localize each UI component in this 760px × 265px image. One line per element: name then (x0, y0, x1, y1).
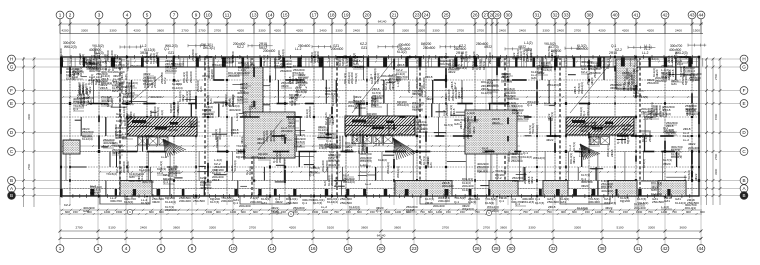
svg-text:250x600: 250x600 (189, 71, 193, 83)
svg-text:28: 28 (493, 246, 499, 251)
svg-text:3Φ20: 3Φ20 (281, 84, 289, 88)
svg-text:1200: 1200 (104, 210, 111, 214)
svg-text:2Φ18: 2Φ18 (610, 149, 614, 157)
svg-text:300x700: 300x700 (381, 134, 385, 146)
svg-text:8@200: 8@200 (551, 49, 562, 53)
svg-text:250x600: 250x600 (593, 66, 597, 78)
svg-text:GZ1: GZ1 (124, 74, 128, 80)
svg-text:L-1(2): L-1(2) (512, 56, 520, 60)
svg-text:32: 32 (550, 246, 556, 251)
svg-text:1: 1 (59, 12, 62, 17)
svg-text:2700: 2700 (574, 29, 581, 33)
svg-text:YKL5(2): YKL5(2) (412, 108, 423, 112)
svg-text:64140: 64140 (377, 234, 386, 238)
text labels over stair hatches (132, 120, 616, 133)
svg-text:400x900: 400x900 (601, 189, 613, 193)
svg-text:3Φ20: 3Φ20 (580, 129, 588, 133)
svg-text:LL-2: LL-2 (143, 59, 149, 63)
text clusters below building (64, 196, 699, 213)
svg-text:150: 150 (623, 210, 628, 214)
svg-text:38: 38 (586, 12, 592, 17)
svg-text:KL7(3): KL7(3) (572, 142, 576, 151)
svg-text:600: 600 (253, 210, 258, 214)
svg-text:KL7(3): KL7(3) (535, 201, 544, 205)
svg-text:300x700: 300x700 (129, 179, 141, 183)
svg-text:150: 150 (585, 210, 590, 214)
svg-text:3300: 3300 (81, 29, 88, 33)
svg-text:3300: 3300 (543, 29, 550, 33)
svg-text:64140: 64140 (378, 20, 387, 24)
svg-text:L-1(2): L-1(2) (663, 112, 671, 116)
svg-text:2700: 2700 (27, 163, 31, 170)
svg-text:2400: 2400 (675, 29, 682, 33)
svg-text:KZ-2: KZ-2 (581, 70, 588, 74)
svg-text:10: 10 (230, 246, 236, 251)
svg-text:KZ-2: KZ-2 (495, 176, 502, 180)
svg-text:4200: 4200 (622, 29, 629, 33)
svg-text:20: 20 (378, 246, 384, 251)
svg-text:3300: 3300 (27, 113, 31, 120)
svg-text:250x600: 250x600 (130, 64, 142, 68)
svg-text:KZ-2: KZ-2 (320, 56, 324, 63)
svg-text:KL12(4): KL12(4) (651, 192, 662, 196)
svg-text:GZ1: GZ1 (198, 55, 202, 61)
svg-text:3Φ20: 3Φ20 (581, 184, 589, 188)
svg-text:5100: 5100 (617, 226, 624, 230)
vertical axis grid lines to bottom bubbles (60, 196, 701, 245)
svg-text:150: 150 (460, 210, 465, 214)
svg-text:250x500: 250x500 (407, 81, 411, 93)
svg-text:Q-1: Q-1 (499, 199, 504, 203)
svg-text:15: 15 (282, 12, 288, 17)
svg-text:400x900: 400x900 (588, 200, 600, 204)
svg-text:30: 30 (505, 12, 511, 17)
svg-text:LL-2: LL-2 (281, 136, 287, 140)
svg-text:4Φ22: 4Φ22 (448, 70, 456, 74)
svg-text:400x900: 400x900 (328, 163, 340, 167)
svg-text:4Φ22: 4Φ22 (251, 155, 259, 159)
svg-text:200x400: 200x400 (59, 48, 63, 60)
svg-text:2400: 2400 (519, 29, 526, 33)
svg-text:KL3(2): KL3(2) (141, 201, 150, 205)
svg-text:WKL2(3): WKL2(3) (155, 52, 159, 64)
svg-text:30: 30 (508, 246, 514, 251)
svg-text:Q-1: Q-1 (475, 54, 479, 59)
svg-text:4200: 4200 (134, 29, 141, 33)
svg-text:KL7(3): KL7(3) (90, 191, 99, 195)
svg-text:LL-2: LL-2 (321, 205, 327, 209)
svg-text:4Φ22: 4Φ22 (546, 138, 554, 142)
svg-text:4Φ22: 4Φ22 (240, 136, 244, 144)
svg-text:LL-2: LL-2 (295, 47, 302, 51)
svg-text:WKL2(3): WKL2(3) (522, 200, 534, 204)
svg-text:250x500: 250x500 (460, 87, 464, 99)
svg-text:GZ1: GZ1 (121, 97, 125, 103)
svg-text:LL-2: LL-2 (544, 101, 550, 105)
svg-text:WKL2(3): WKL2(3) (604, 201, 616, 205)
svg-text:17: 17 (311, 12, 317, 17)
svg-text:400x900: 400x900 (150, 95, 162, 99)
svg-text:4200: 4200 (289, 226, 296, 230)
stair fan middle (393, 138, 417, 160)
svg-text:2Φ18: 2Φ18 (140, 124, 148, 128)
svg-text:2Φ18: 2Φ18 (345, 148, 353, 152)
svg-text:KZ-2: KZ-2 (237, 45, 244, 49)
svg-text:KL7(3): KL7(3) (210, 200, 219, 204)
svg-text:F: F (10, 88, 13, 93)
svg-text:3600: 3600 (173, 226, 180, 230)
svg-text:1200: 1200 (595, 210, 602, 214)
svg-text:5100: 5100 (327, 226, 334, 230)
svg-text:21: 21 (391, 12, 397, 17)
svg-text:2700: 2700 (457, 29, 464, 33)
svg-text:KL7(3): KL7(3) (507, 104, 516, 108)
svg-text:YKL5(2): YKL5(2) (354, 73, 358, 84)
svg-text:LL-2: LL-2 (589, 142, 595, 146)
svg-text:H: H (10, 56, 13, 61)
svg-text:F: F (743, 88, 746, 93)
svg-text:200x400: 200x400 (331, 47, 343, 51)
svg-text:Q-1: Q-1 (82, 103, 87, 107)
svg-text:LL-2: LL-2 (444, 53, 448, 59)
svg-text:GZ1: GZ1 (199, 86, 203, 92)
svg-text:L-1(2): L-1(2) (235, 113, 239, 121)
svg-text:3Φ20: 3Φ20 (140, 51, 148, 55)
svg-text:4Φ22: 4Φ22 (426, 97, 434, 101)
text clusters and mini dimension chains above building (63, 41, 706, 55)
svg-text:150: 150 (346, 210, 351, 214)
svg-text:900: 900 (87, 210, 92, 214)
svg-text:44: 44 (698, 246, 704, 251)
svg-text:B: B (742, 178, 745, 183)
svg-text:2700: 2700 (714, 153, 718, 160)
concrete columns at grid intersections (60, 56, 700, 198)
svg-text:2700: 2700 (214, 29, 221, 33)
svg-text:200x400: 200x400 (86, 65, 98, 69)
svg-text:2Φ18: 2Φ18 (258, 156, 266, 160)
svg-text:400x900: 400x900 (487, 88, 499, 92)
svg-text:19: 19 (343, 12, 349, 17)
svg-text:WKL2(3): WKL2(3) (348, 104, 360, 108)
svg-text:Q-1: Q-1 (240, 89, 245, 93)
svg-text:2Φ18: 2Φ18 (671, 69, 675, 77)
lower projection stubs (100, 196, 610, 204)
svg-text:1500: 1500 (116, 210, 123, 214)
svg-text:250x500: 250x500 (663, 130, 675, 134)
svg-text:1500: 1500 (693, 29, 700, 33)
stair hatch middle (axes 19-23) (345, 116, 415, 135)
svg-text:L-1(2): L-1(2) (599, 124, 603, 132)
svg-text:Q-1: Q-1 (648, 115, 653, 119)
svg-text:200x400: 200x400 (604, 125, 616, 129)
svg-text:300x700: 300x700 (466, 117, 470, 129)
svg-text:KL7(3): KL7(3) (94, 51, 104, 55)
svg-text:3Φ20: 3Φ20 (610, 86, 618, 90)
svg-text:L-1(2): L-1(2) (294, 144, 302, 148)
svg-text:150: 150 (281, 210, 286, 214)
svg-text:G: G (742, 64, 746, 69)
top axis bubbles (56, 11, 705, 19)
svg-text:KL7(3): KL7(3) (482, 61, 486, 70)
svg-text:4Φ22: 4Φ22 (298, 83, 306, 87)
svg-text:4200: 4200 (599, 29, 606, 33)
svg-text:WKL2(3): WKL2(3) (451, 89, 455, 101)
svg-text:400x900: 400x900 (229, 108, 241, 112)
svg-text:3300: 3300 (110, 29, 117, 33)
svg-text:KL3(2): KL3(2) (378, 158, 387, 162)
svg-text:GZ1: GZ1 (361, 46, 367, 50)
svg-text:300x700: 300x700 (361, 130, 365, 142)
svg-text:KL12(4): KL12(4) (82, 137, 93, 141)
svg-text:KL3(2): KL3(2) (116, 119, 125, 123)
svg-text:GZ1: GZ1 (482, 150, 488, 154)
svg-text:300x700: 300x700 (272, 130, 276, 142)
svg-text:KL7(3): KL7(3) (661, 75, 670, 79)
svg-text:LL-2: LL-2 (161, 155, 167, 159)
svg-text:900: 900 (561, 210, 566, 214)
svg-text:WKL2(3): WKL2(3) (343, 180, 355, 184)
svg-text:19: 19 (345, 246, 351, 251)
svg-text:DKL3(1): DKL3(1) (606, 58, 610, 69)
svg-text:750: 750 (547, 210, 552, 214)
svg-text:3600: 3600 (500, 226, 507, 230)
svg-text:20: 20 (364, 12, 370, 17)
svg-text:Q-1: Q-1 (172, 66, 177, 70)
svg-text:YKL5(2): YKL5(2) (501, 79, 512, 83)
right axis bubbles (740, 55, 748, 199)
svg-text:Q-1: Q-1 (454, 200, 459, 204)
svg-text:23: 23 (411, 246, 417, 251)
svg-text:LL-2: LL-2 (72, 75, 78, 79)
svg-text:1500: 1500 (384, 210, 391, 214)
svg-text:3300: 3300 (433, 29, 440, 33)
svg-text:750: 750 (672, 210, 677, 214)
svg-text:KL12(4): KL12(4) (327, 200, 338, 204)
svg-text:YKL5(2): YKL5(2) (541, 68, 552, 72)
svg-text:LL-2: LL-2 (365, 182, 371, 186)
svg-text:KL12(4): KL12(4) (349, 205, 360, 209)
svg-text:250x600: 250x600 (689, 76, 701, 80)
svg-text:600: 600 (504, 210, 509, 214)
svg-text:DKL3(1): DKL3(1) (477, 169, 488, 173)
svg-text:L-1(2): L-1(2) (360, 163, 368, 167)
svg-text:3300: 3300 (418, 29, 425, 33)
svg-text:KL12(4): KL12(4) (233, 160, 237, 171)
svg-text:250x600: 250x600 (512, 179, 524, 183)
svg-text:200x400: 200x400 (438, 199, 450, 203)
svg-text:WKL2(3): WKL2(3) (675, 51, 688, 55)
svg-text:KL7(3): KL7(3) (444, 123, 453, 127)
interior vertical beam lines (70, 57, 692, 196)
svg-text:750: 750 (609, 210, 614, 214)
svg-text:1500: 1500 (714, 113, 718, 120)
svg-text:26: 26 (472, 12, 478, 17)
svg-text:Q-1: Q-1 (515, 202, 520, 206)
svg-text:5: 5 (146, 12, 149, 17)
svg-text:13: 13 (251, 12, 257, 17)
svg-text:Q-1: Q-1 (309, 173, 314, 177)
svg-text:3300: 3300 (648, 226, 655, 230)
svg-text:3Φ20: 3Φ20 (331, 117, 335, 125)
svg-text:1200: 1200 (322, 210, 329, 214)
svg-text:KZ-2: KZ-2 (163, 77, 167, 84)
svg-text:250x600: 250x600 (547, 200, 559, 204)
svg-text:GZ1: GZ1 (406, 55, 412, 59)
svg-text:4Φ22: 4Φ22 (293, 98, 297, 106)
svg-text:250x600: 250x600 (153, 76, 157, 88)
svg-text:3300: 3300 (209, 226, 216, 230)
svg-text:3600: 3600 (361, 226, 368, 230)
svg-text:4Φ22: 4Φ22 (275, 200, 283, 204)
svg-text:3300: 3300 (714, 168, 718, 175)
svg-text:24: 24 (423, 12, 429, 17)
svg-text:KL12(4): KL12(4) (331, 95, 335, 106)
svg-text:Q-1: Q-1 (73, 107, 78, 111)
svg-text:750: 750 (648, 210, 653, 214)
svg-text:1200: 1200 (230, 210, 237, 214)
svg-text:200x400: 200x400 (433, 204, 445, 208)
svg-text:L-1(2): L-1(2) (319, 146, 327, 150)
svg-text:250x600: 250x600 (286, 201, 298, 205)
stair fan left (163, 139, 186, 158)
svg-text:KL12(4): KL12(4) (172, 86, 183, 90)
svg-text:L-1(2): L-1(2) (661, 205, 669, 209)
svg-text:DKL3(1): DKL3(1) (262, 55, 266, 66)
svg-text:3600: 3600 (680, 226, 687, 230)
horizontal axis grid lines (15, 59, 741, 196)
svg-text:2Φ18: 2Φ18 (100, 86, 108, 90)
svg-text:B: B (10, 193, 13, 198)
svg-text:4200: 4200 (237, 29, 244, 33)
svg-text:250x500: 250x500 (423, 46, 435, 50)
svg-text:KZ-2: KZ-2 (288, 124, 295, 128)
svg-text:KL12(4): KL12(4) (165, 200, 176, 204)
svg-text:32: 32 (552, 12, 558, 17)
svg-text:3Φ20: 3Φ20 (257, 141, 265, 145)
svg-text:2Φ18: 2Φ18 (231, 131, 239, 135)
diagonal leader lines (133, 62, 610, 150)
svg-text:3Φ20: 3Φ20 (461, 56, 469, 60)
svg-text:KL7(3): KL7(3) (334, 177, 338, 186)
svg-text:43: 43 (689, 12, 695, 17)
svg-text:G: G (10, 64, 14, 69)
svg-text:900: 900 (686, 210, 691, 214)
svg-text:WKL2(3): WKL2(3) (386, 162, 390, 174)
svg-text:5100: 5100 (109, 226, 116, 230)
svg-text:200x400: 200x400 (239, 204, 251, 208)
svg-text:4Φ22: 4Φ22 (694, 173, 698, 181)
svg-text:8@200: 8@200 (684, 75, 688, 85)
svg-text:Q-1: Q-1 (139, 172, 144, 176)
svg-text:750: 750 (475, 210, 480, 214)
svg-text:250x500: 250x500 (655, 79, 667, 83)
svg-text:H: H (742, 56, 745, 61)
svg-text:8@200: 8@200 (210, 69, 214, 79)
svg-text:42: 42 (662, 246, 668, 251)
svg-text:200x400: 200x400 (688, 146, 700, 150)
svg-text:3300: 3300 (336, 29, 343, 33)
svg-text:250x500: 250x500 (193, 199, 205, 203)
svg-text:200x400: 200x400 (248, 105, 252, 117)
svg-text:250x500: 250x500 (455, 56, 459, 68)
svg-text:2400: 2400 (353, 29, 360, 33)
left dimension chains (22, 57, 35, 207)
svg-text:WKL2(3): WKL2(3) (547, 83, 559, 87)
svg-text:E: E (742, 101, 745, 106)
party wall thick dashed lines (120, 57, 640, 196)
svg-text:2700: 2700 (442, 226, 449, 230)
svg-text:250x500: 250x500 (387, 124, 391, 136)
svg-text:400x900: 400x900 (238, 71, 250, 75)
svg-text:3300: 3300 (402, 29, 409, 33)
svg-text:41: 41 (635, 246, 641, 251)
svg-text:WKL2(3): WKL2(3) (586, 104, 590, 116)
svg-text:900: 900 (700, 210, 705, 214)
svg-text:LL-2: LL-2 (103, 144, 109, 148)
dense dimension chain row (60, 210, 705, 215)
svg-text:750: 750 (334, 210, 339, 214)
svg-text:B: B (742, 193, 745, 198)
svg-text:600: 600 (357, 210, 362, 214)
svg-text:600: 600 (65, 210, 70, 214)
stair hatch left (axes 4-9) (127, 117, 197, 136)
svg-text:14: 14 (269, 246, 275, 251)
svg-text:3Φ20: 3Φ20 (492, 121, 500, 125)
svg-text:2700: 2700 (477, 29, 484, 33)
svg-text:3600: 3600 (157, 29, 164, 33)
svg-text:4200: 4200 (296, 29, 303, 33)
svg-text:200x400: 200x400 (263, 49, 275, 53)
svg-text:1200: 1200 (395, 210, 402, 214)
window and door ticks on envelope (62, 55, 693, 198)
svg-text:DKL3(1): DKL3(1) (671, 155, 682, 159)
svg-text:200x400: 200x400 (221, 199, 233, 203)
svg-text:300x700: 300x700 (218, 128, 222, 140)
svg-text:GZ1: GZ1 (664, 199, 670, 203)
svg-text:KZ-2: KZ-2 (112, 89, 119, 93)
svg-text:LL-2: LL-2 (422, 124, 426, 130)
svg-text:KZ-2: KZ-2 (295, 93, 302, 97)
circled detail marks (127, 209, 491, 216)
svg-text:KZ-2: KZ-2 (85, 88, 89, 95)
room partition wall segments (66, 57, 692, 196)
svg-text:WKL2(3): WKL2(3) (396, 166, 400, 178)
svg-text:KL3(2): KL3(2) (642, 159, 646, 168)
svg-text:YKL5(2): YKL5(2) (293, 71, 304, 75)
svg-text:8@200: 8@200 (620, 199, 630, 203)
right dimension chains (705, 58, 721, 205)
svg-text:WKL2(3): WKL2(3) (242, 148, 246, 160)
svg-text:2400: 2400 (557, 29, 564, 33)
svg-text:42: 42 (662, 12, 668, 17)
svg-text:14: 14 (267, 12, 273, 17)
svg-text:4Φ22: 4Φ22 (572, 156, 576, 164)
svg-text:KL3(2): KL3(2) (535, 125, 539, 134)
svg-text:300x700: 300x700 (126, 114, 130, 126)
stair hatch right (axes 33-40) (566, 117, 634, 135)
stipple block right (616, 59, 637, 89)
svg-text:250x500: 250x500 (511, 159, 523, 163)
svg-text:1200: 1200 (436, 210, 443, 214)
door swing arcs (180, 121, 629, 135)
svg-text:GZ1: GZ1 (209, 98, 213, 104)
stipple block lower-left (63, 140, 80, 154)
svg-text:44: 44 (698, 12, 704, 17)
building outer wall (61, 57, 699, 196)
svg-text:40: 40 (612, 12, 618, 17)
wall band stubs and window symbols (60, 58, 703, 196)
svg-text:GZ1: GZ1 (531, 76, 537, 80)
